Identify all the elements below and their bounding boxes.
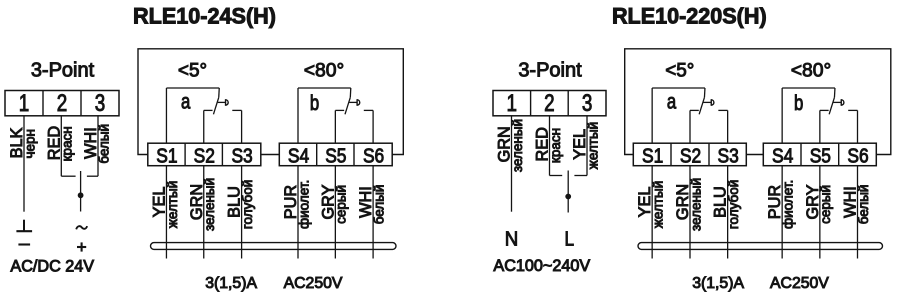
svg-text:1: 1 bbox=[507, 90, 518, 117]
svg-text:желтый: желтый bbox=[165, 181, 180, 228]
svg-text:желтый: желтый bbox=[651, 181, 666, 228]
svg-text:S4: S4 bbox=[772, 144, 793, 167]
svg-text:серый: серый bbox=[818, 185, 833, 224]
svg-text:серый: серый bbox=[334, 185, 349, 224]
svg-text:RLE10-24S(H): RLE10-24S(H) bbox=[133, 3, 276, 28]
svg-text:3: 3 bbox=[582, 90, 593, 117]
svg-text:S3: S3 bbox=[718, 144, 739, 167]
svg-text:<5°: <5° bbox=[178, 59, 207, 81]
svg-text:белый: белый bbox=[856, 185, 871, 225]
svg-text:черн: черн bbox=[22, 129, 37, 159]
svg-text:S5: S5 bbox=[810, 144, 831, 167]
svg-text:S6: S6 bbox=[363, 144, 384, 167]
svg-text:3(1,5)A: 3(1,5)A bbox=[692, 275, 744, 292]
svg-text:зеленый: зеленый bbox=[510, 119, 525, 172]
svg-text:AC250V: AC250V bbox=[284, 275, 343, 292]
svg-text:зеленый: зеленый bbox=[688, 178, 703, 231]
svg-text:AC250V: AC250V bbox=[770, 275, 829, 292]
svg-text:3(1,5)A: 3(1,5)A bbox=[205, 275, 257, 292]
svg-text:AC/DC 24V: AC/DC 24V bbox=[10, 258, 94, 276]
svg-text:RLE10-220S(H): RLE10-220S(H) bbox=[612, 3, 767, 28]
svg-text:b: b bbox=[794, 92, 803, 115]
svg-text:<80°: <80° bbox=[791, 59, 832, 81]
svg-text:голубой: голубой bbox=[726, 180, 741, 229]
svg-text:фиолет.: фиолет. bbox=[781, 180, 796, 229]
svg-text:зеленый: зеленый bbox=[202, 178, 217, 231]
svg-text:белый: белый bbox=[96, 124, 111, 164]
svg-text:красн: красн bbox=[548, 128, 563, 163]
svg-text:<5°: <5° bbox=[665, 59, 694, 81]
svg-text:фиолет.: фиолет. bbox=[296, 180, 311, 229]
svg-text:<80°: <80° bbox=[304, 59, 345, 81]
svg-text:3-Point: 3-Point bbox=[518, 59, 582, 81]
svg-text:3-Point: 3-Point bbox=[31, 59, 95, 81]
svg-text:S5: S5 bbox=[325, 144, 346, 167]
svg-text:S2: S2 bbox=[680, 144, 701, 167]
svg-text:S2: S2 bbox=[194, 144, 215, 167]
svg-text:L: L bbox=[565, 227, 575, 250]
svg-text:b: b bbox=[310, 92, 319, 115]
svg-text:a: a bbox=[181, 91, 191, 114]
svg-text:AC100~240V: AC100~240V bbox=[493, 257, 590, 275]
svg-text:S1: S1 bbox=[156, 144, 177, 167]
svg-text:2: 2 bbox=[544, 90, 555, 117]
svg-text:2: 2 bbox=[57, 90, 68, 117]
svg-text:S1: S1 bbox=[642, 144, 663, 167]
svg-text:1: 1 bbox=[19, 90, 30, 117]
svg-text:N: N bbox=[505, 227, 519, 250]
svg-text:S6: S6 bbox=[847, 144, 868, 167]
svg-text:S4: S4 bbox=[288, 144, 309, 167]
svg-text:3: 3 bbox=[95, 90, 106, 117]
svg-text:красн: красн bbox=[60, 126, 75, 161]
svg-text:голубой: голубой bbox=[240, 180, 255, 229]
svg-text:белый: белый bbox=[372, 185, 387, 225]
svg-text:a: a bbox=[667, 91, 677, 114]
svg-text:S3: S3 bbox=[231, 144, 252, 167]
svg-text:желтый: желтый bbox=[585, 122, 600, 169]
